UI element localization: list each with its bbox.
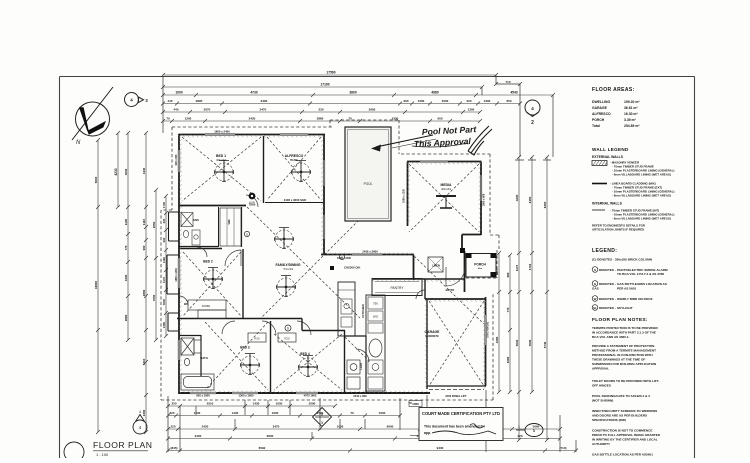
dim col left 4 <box>142 131 148 434</box>
svg-text:17190: 17190 <box>320 83 329 87</box>
svg-text:36.61 m²: 36.61 m² <box>624 106 638 110</box>
wall bed3-bed4 divider <box>270 321 272 393</box>
svg-text:PORCH: PORCH <box>474 263 486 267</box>
svg-text:3.6 x 3.4: 3.6 x 3.4 <box>441 188 451 191</box>
svg-text:1000 x 2400: 1000 x 2400 <box>337 257 352 260</box>
svg-text:(NOT SHOWN): (NOT SHOWN) <box>592 399 613 403</box>
svg-text:254.89 m²: 254.89 m² <box>624 124 640 128</box>
svg-text:6000: 6000 <box>387 425 394 429</box>
svg-text:6490: 6490 <box>261 99 268 103</box>
svg-text:4130: 4130 <box>142 167 146 174</box>
wall garage south <box>427 385 486 387</box>
svg-text:FLOOR PLAN: FLOOR PLAN <box>93 440 152 450</box>
svg-text:2510: 2510 <box>207 402 214 406</box>
wall bed2 north <box>179 248 222 250</box>
svg-text:1000: 1000 <box>175 91 183 95</box>
handwritten note pool not part this approval <box>412 124 478 149</box>
legend section <box>592 248 668 310</box>
dim col right 3 <box>515 155 521 442</box>
bottom dim extension lines <box>168 390 576 452</box>
linen closet <box>428 257 443 272</box>
svg-text:BED 3: BED 3 <box>240 346 250 350</box>
svg-text:300: 300 <box>403 99 408 103</box>
door arc laundry <box>356 349 369 362</box>
border frame <box>60 77 695 459</box>
balloon marker 4-2 <box>525 100 540 126</box>
roof hips garage <box>429 301 484 386</box>
dim col left 1 (16600) <box>94 138 100 434</box>
ceiling fan bed2 <box>204 268 223 289</box>
svg-text:S: S <box>287 327 289 331</box>
svg-text:6150: 6150 <box>528 196 532 203</box>
wall wir east <box>241 207 243 247</box>
wall ens-wir divider <box>218 207 220 247</box>
svg-text:AUTHORITY: AUTHORITY <box>592 442 611 446</box>
garage door line <box>429 389 484 391</box>
svg-text:FAMILY/DINING: FAMILY/DINING <box>276 263 301 267</box>
smoke alarm family <box>339 254 344 259</box>
dim col left 2 (4230) <box>114 131 120 209</box>
wall left wing top <box>179 134 326 136</box>
small label box above stamp <box>409 401 422 407</box>
roof hips bed4 <box>274 334 342 390</box>
svg-text:GAS BOTTLE LOCATION AS PER AS5: GAS BOTTLE LOCATION AS PER AS5601 <box>592 453 653 457</box>
svg-text:PORCH: PORCH <box>592 118 605 122</box>
svg-text:900 x 600: 900 x 600 <box>175 154 178 165</box>
svg-text:R20: R20 <box>284 337 290 341</box>
certification stamp <box>410 408 503 441</box>
bay ens window <box>169 212 180 241</box>
dim col right 2 <box>506 253 512 394</box>
svg-text:1380: 1380 <box>142 409 146 416</box>
svg-text:1430: 1430 <box>232 411 239 415</box>
svg-text:LDRY: LDRY <box>359 362 363 369</box>
svg-text:650: 650 <box>506 99 511 103</box>
wall porch-entry <box>464 251 466 292</box>
svg-text:70: 70 <box>408 401 412 405</box>
wall garage north <box>425 298 486 300</box>
dim extension line mid <box>482 75 553 157</box>
door arc hall top <box>246 195 258 207</box>
svg-text:ENTRY: ENTRY <box>446 288 455 292</box>
bay bath window <box>167 255 179 294</box>
svg-text:TO BCA VOL 2 P2.7.2 & AS 3786: TO BCA VOL 2 P2.7.2 & AS 3786 <box>617 272 664 276</box>
svg-text:BED 2: BED 2 <box>203 260 213 264</box>
svg-text:1110: 1110 <box>142 219 146 226</box>
door arc bath hall <box>222 321 235 334</box>
wall bed1-alfresco divider <box>263 136 265 203</box>
dimension row bottom 2 <box>166 411 402 417</box>
dim extension line left <box>162 76 164 133</box>
svg-text:7.1 x 4.4: 7.1 x 4.4 <box>283 268 293 271</box>
svg-text:1200: 1200 <box>418 99 425 103</box>
svg-text:4000: 4000 <box>442 99 449 103</box>
svg-text:IN ACCORDANCE WITH PART 3.1.3: IN ACCORDANCE WITH PART 3.1.3 OF THE <box>592 331 656 335</box>
svg-text:PROFESSIONAL IN CONJUNCTION WI: PROFESSIONAL IN CONJUNCTION WITH <box>592 353 653 357</box>
svg-text:CHS300 O/H: CHS300 O/H <box>344 266 360 270</box>
svg-text:ALFRESCO: ALFRESCO <box>285 154 304 158</box>
svg-text:445: 445 <box>167 99 172 103</box>
wall bath block <box>179 335 201 376</box>
column marker kob <box>249 193 256 205</box>
ceiling fan bed1 <box>215 161 234 182</box>
svg-text:600: 600 <box>437 117 442 121</box>
svg-text:PROVIDE A STATEMENT OF PROTECT: PROVIDE A STATEMENT OF PROTECTION <box>592 344 655 348</box>
wall house south <box>179 392 430 394</box>
svg-text:220: 220 <box>169 411 174 415</box>
svg-text:DENOTES -: DENOTES - <box>599 282 616 286</box>
svg-text:3300: 3300 <box>124 274 128 281</box>
svg-text:POOL: POOL <box>364 182 373 186</box>
dimension row top D <box>161 99 522 105</box>
wall media west <box>407 162 409 226</box>
svg-text:1430: 1430 <box>253 402 260 406</box>
svg-text:DENOTES -: DENOTES - <box>599 297 616 301</box>
svg-text:AND DOORS ARE AS PER BUILDERS: AND DOORS ARE AS PER BUILDERS <box>592 414 647 418</box>
door arc bed2 <box>225 250 241 266</box>
floor areas table <box>592 87 640 128</box>
svg-text:Total: Total <box>592 124 600 128</box>
svg-text:8450: 8450 <box>543 201 547 208</box>
kitchen wall bench and appliances <box>366 295 385 391</box>
svg-text:17560: 17560 <box>326 71 335 75</box>
svg-text:70: 70 <box>350 411 354 415</box>
dimension row top F <box>161 117 482 123</box>
roof hips family <box>247 204 375 318</box>
svg-text:2860: 2860 <box>142 289 146 296</box>
door arc wc <box>179 296 188 305</box>
wall legend <box>592 147 675 232</box>
svg-text:4030: 4030 <box>124 168 128 175</box>
roof hips bed2 <box>183 252 241 316</box>
wall garage east <box>485 297 487 386</box>
svg-text:EXTERNAL WALLS: EXTERNAL WALLS <box>592 155 624 159</box>
svg-text:CONSTRUCTION IS NOT TO COMMENC: CONSTRUCTION IS NOT TO COMMENCE <box>592 429 652 433</box>
svg-text:199.20 m²: 199.20 m² <box>624 100 640 104</box>
svg-text:4730: 4730 <box>250 91 258 95</box>
svg-text:SPECIFICATIONS (IND): SPECIFICATIONS (IND) <box>592 418 626 422</box>
svg-text:1380: 1380 <box>162 321 166 328</box>
svg-text:2420: 2420 <box>249 117 256 121</box>
dim col left 5 (7050) <box>152 188 158 342</box>
door arc entry <box>446 267 465 286</box>
svg-text:1173: 1173 <box>515 264 519 271</box>
svg-text:BED 1: BED 1 <box>216 154 226 158</box>
wall bed4 north <box>302 319 345 331</box>
svg-text:1190: 1190 <box>162 257 166 264</box>
wall entry west <box>424 279 426 299</box>
dim col left 6 <box>162 194 168 338</box>
svg-text:5310: 5310 <box>142 358 146 365</box>
svg-text:2380: 2380 <box>495 336 499 343</box>
svg-text:2420: 2420 <box>202 425 209 429</box>
svg-text:220: 220 <box>170 425 175 429</box>
svg-text:713: 713 <box>505 80 510 84</box>
svg-text:1 : 100: 1 : 100 <box>96 452 109 457</box>
svg-text:FLOOR PLAN NOTES:: FLOOR PLAN NOTES: <box>592 317 648 323</box>
dimension row top B (17190) <box>161 83 484 89</box>
dim ext tick 713 <box>494 82 522 86</box>
svg-text:2050: 2050 <box>152 221 156 228</box>
balloon marker diamond <box>313 408 332 427</box>
balloon marker bottom 4 <box>133 410 147 434</box>
svg-text:GAS BOTTLE/HWS LOCATION AS: GAS BOTTLE/HWS LOCATION AS <box>617 282 667 286</box>
svg-text:1230: 1230 <box>194 411 201 415</box>
door arc ens <box>197 247 207 257</box>
checkmark scribble <box>468 126 492 155</box>
svg-text:990: 990 <box>162 237 166 242</box>
svg-text:3800: 3800 <box>349 91 357 95</box>
pool <box>345 127 391 221</box>
svg-text:880: 880 <box>506 272 510 277</box>
svg-text:1000: 1000 <box>276 402 283 406</box>
wall media east <box>480 162 482 235</box>
svg-text:4980: 4980 <box>431 91 439 95</box>
ceiling fan bed4 <box>299 356 318 377</box>
svg-text:770: 770 <box>506 307 510 312</box>
svg-text:LEGEND:: LEGEND: <box>592 248 617 254</box>
ceiling fan alfresco <box>292 161 311 182</box>
svg-text:- 6mm VILLABOARD LINING (WET A: - 6mm VILLABOARD LINING (WET AREAS) <box>612 217 671 221</box>
balloon marker bottom right <box>516 424 543 437</box>
svg-text:BCA VOL AND AS 3660.1.: BCA VOL AND AS 3660.1. <box>592 335 630 339</box>
svg-text:INTERNAL WALLS: INTERNAL WALLS <box>592 202 623 206</box>
wall left exterior <box>178 134 180 394</box>
robe shelving bed2 <box>188 300 226 319</box>
svg-text:THESE DRAWINGS AT THE TIME OF: THESE DRAWINGS AT THE TIME OF <box>592 358 645 362</box>
svg-text:GARAGE: GARAGE <box>592 106 608 110</box>
svg-text:DENOTES -: DENOTES - <box>599 306 616 310</box>
wall media top <box>407 161 482 163</box>
wall hall <box>177 318 302 320</box>
svg-text:2400 PANEL LIFT: 2400 PANEL LIFT <box>445 394 467 398</box>
porch dashed edge <box>466 250 497 278</box>
svg-text:4543: 4543 <box>510 91 518 95</box>
svg-text:STAC-800 (A): STAC-800 (A) <box>487 322 490 338</box>
svg-text:4230: 4230 <box>114 168 118 175</box>
title floor plan <box>64 440 152 462</box>
svg-text:FLOOR AREAS:: FLOOR AREAS: <box>592 87 635 93</box>
dim col right 1 <box>495 251 501 394</box>
svg-text:ALFRESCO: ALFRESCO <box>592 112 611 116</box>
media room table symbol <box>436 196 456 208</box>
svg-text:1060: 1060 <box>412 402 419 406</box>
wall ens south <box>179 246 218 248</box>
svg-text:ENS: ENS <box>193 218 199 222</box>
svg-text:230: 230 <box>318 108 323 112</box>
ceiling fan bed3 <box>241 354 260 375</box>
svg-text:app.: app. <box>424 431 431 435</box>
svg-text:tiles: tiles <box>478 267 483 270</box>
svg-text:2860: 2860 <box>124 314 128 321</box>
svg-text:720ch: 720ch <box>249 204 256 207</box>
floor plan notes <box>592 317 661 457</box>
smoke alarm hall <box>244 231 249 236</box>
svg-text:2900: 2900 <box>369 108 376 112</box>
svg-text:1300: 1300 <box>468 108 475 112</box>
svg-text:5030: 5030 <box>515 339 519 346</box>
svg-text:5740: 5740 <box>543 341 547 348</box>
svg-text:750: 750 <box>373 302 378 306</box>
wall alfresco east <box>323 134 325 255</box>
svg-text:BED 4: BED 4 <box>300 352 310 356</box>
svg-text:3470: 3470 <box>273 425 280 429</box>
dimension row top A (17560) <box>161 71 498 77</box>
wall kitchen-laundry <box>345 336 366 393</box>
svg-text:220: 220 <box>466 99 471 103</box>
svg-text:(710): (710) <box>559 446 566 450</box>
ensuite fixtures <box>181 213 200 246</box>
door arc bed4 <box>297 321 311 335</box>
svg-text:KITCHEN: KITCHEN <box>361 304 365 317</box>
svg-text:TERMITE PROTECTION IS TO BE PR: TERMITE PROTECTION IS TO BE PROVIDED <box>592 326 659 330</box>
svg-text:5470: 5470 <box>260 108 267 112</box>
laundry fixtures <box>347 360 360 389</box>
wall courtyard south <box>321 254 414 256</box>
svg-text:N: N <box>76 140 81 146</box>
kitchen island bench <box>338 282 355 336</box>
svg-text:1700: 1700 <box>162 201 166 208</box>
dimension row bottom 1 <box>166 402 337 408</box>
roof hips bed1 <box>182 137 261 201</box>
wall media south step <box>462 235 481 252</box>
svg-text:METHOD FROM A TERMITE MANAGEME: METHOD FROM A TERMITE MANAGEMENT <box>592 349 656 353</box>
dim col left 3 <box>124 131 130 342</box>
svg-text:16.30 m²: 16.30 m² <box>624 112 638 116</box>
svg-text:WIR: WIR <box>227 219 231 224</box>
svg-text:LINEN: LINEN <box>432 264 440 268</box>
dimension row bottom 4 <box>166 434 562 440</box>
svg-text:SUBMISSION FOR BUILDING APPLIC: SUBMISSION FOR BUILDING APPLICATION <box>592 362 657 366</box>
svg-text:2: 2 <box>531 120 534 126</box>
pantry room <box>372 279 422 296</box>
svg-text:2340 x 820: 2340 x 820 <box>353 394 367 398</box>
chs column <box>330 266 334 270</box>
svg-text:TOILET DOORS TO BE PROVIDED WI: TOILET DOORS TO BE PROVIDED WITH LIFT- <box>592 379 659 383</box>
dim col right 4 <box>528 155 534 394</box>
svg-text:MEDIA: MEDIA <box>441 183 452 187</box>
svg-text:6592: 6592 <box>259 446 266 450</box>
door arc bed3 <box>262 321 276 335</box>
svg-text:1300: 1300 <box>484 99 491 103</box>
svg-text:W: W <box>594 297 597 301</box>
svg-text:2590: 2590 <box>309 402 316 406</box>
svg-text:S: S <box>594 268 596 272</box>
svg-text:1000: 1000 <box>379 411 386 415</box>
svg-text:OFF HINGES: OFF HINGES <box>592 384 611 388</box>
wall family east <box>413 255 415 280</box>
svg-text:ARTICULATION JOINTS IF REQUIRE: ARTICULATION JOINTS IF REQUIRED <box>592 228 644 232</box>
svg-text:1000: 1000 <box>272 411 279 415</box>
roof valley entry <box>414 256 484 324</box>
svg-text:5280: 5280 <box>506 356 510 363</box>
wall left wing bottom bed1 <box>179 205 246 207</box>
svg-text:445: 445 <box>173 108 178 112</box>
svg-text:1800 x 1330: 1800 x 1330 <box>403 188 406 203</box>
svg-text:GAS: GAS <box>592 287 599 291</box>
svg-text:WHIRLY BIRD ON ROOF: WHIRLY BIRD ON ROOF <box>617 297 653 301</box>
walk-in robe <box>220 208 241 246</box>
bathroom fixtures <box>181 338 214 390</box>
svg-text:TILING: TILING <box>290 159 298 162</box>
svg-text:2420: 2420 <box>195 434 202 438</box>
svg-text:INSECT/SECURITY SCREENS TO WIN: INSECT/SECURITY SCREENS TO WINDOWS <box>592 409 657 413</box>
svg-text:3.6 x 3.2: 3.6 x 3.2 <box>216 159 226 162</box>
svg-text:DWELLING: DWELLING <box>592 100 610 104</box>
dashed eave left wing and body <box>161 127 493 400</box>
svg-text:1200: 1200 <box>185 117 192 121</box>
svg-text:70: 70 <box>166 117 170 121</box>
svg-text:16600: 16600 <box>94 281 98 289</box>
window gaps <box>178 133 487 394</box>
svg-text:WO: WO <box>373 315 379 319</box>
svg-text:SL: SL <box>593 306 597 310</box>
svg-text:APPROVAL: APPROVAL <box>592 367 609 371</box>
svg-text:2070: 2070 <box>204 108 211 112</box>
dim col right 5 <box>543 155 549 442</box>
porch structure <box>460 248 497 277</box>
door arc garage internal <box>416 290 425 299</box>
wall pantry-entry north <box>372 278 465 280</box>
svg-text:1800 x 600: 1800 x 600 <box>483 193 486 206</box>
svg-text:1170: 1170 <box>162 277 166 284</box>
svg-text:PRIOR TO FULL APPROVAL BEING G: PRIOR TO FULL APPROVAL BEING GRANTED <box>592 433 661 437</box>
svg-text:(845): (845) <box>170 446 177 450</box>
svg-text:SKYLIGHT: SKYLIGHT <box>617 306 633 310</box>
wall bed2 east <box>242 249 244 318</box>
dimension row top E <box>161 108 482 114</box>
svg-text:1800 x 1330: 1800 x 1330 <box>175 268 178 282</box>
svg-text:COURT MADE CERTIFICATION PTY L: COURT MADE CERTIFICATION PTY LTD <box>422 411 500 416</box>
svg-text:1716: 1716 <box>528 263 532 270</box>
ceiling fan family north <box>275 228 294 249</box>
roof hips bed3 <box>205 322 268 390</box>
roof hips alfresco <box>267 137 321 200</box>
svg-text:GARAGE: GARAGE <box>425 330 441 334</box>
svg-text:3500: 3500 <box>528 339 532 346</box>
svg-text:WALL LEGEND: WALL LEGEND <box>592 147 629 152</box>
alfresco sgd line <box>265 202 324 204</box>
svg-text:1800 x 2400: 1800 x 2400 <box>214 130 230 134</box>
svg-text:9430: 9430 <box>437 446 444 450</box>
svg-text:S: S <box>246 232 248 236</box>
svg-text:R20: R20 <box>254 337 260 341</box>
north arrow compass <box>72 87 113 146</box>
svg-text:990: 990 <box>142 245 146 250</box>
bay wc window <box>168 313 179 331</box>
svg-text:- 6mm VILLABOARD LINING (WET A: - 6mm VILLABOARD LINING (WET AREAS) <box>612 173 671 177</box>
svg-text:IN WRITING BY THE CERTIFIER AN: IN WRITING BY THE CERTIFIER AND LOCAL <box>592 438 658 442</box>
note leader arrow to pool <box>371 135 436 152</box>
svg-text:1100: 1100 <box>124 218 128 225</box>
roof valley kitchen <box>345 337 366 358</box>
svg-text:DENOTES -: DENOTES - <box>599 268 616 272</box>
svg-text:(C) DENOTES - 350x350 BRICK CO: (C) DENOTES - 350x350 BRICK COLUMN <box>592 258 653 262</box>
dashed eave media wing <box>401 154 499 250</box>
wall bed4 east <box>344 330 346 393</box>
svg-text:3.39 m²: 3.39 m² <box>624 118 637 122</box>
svg-text:3000: 3000 <box>162 298 166 305</box>
dimension row bottom 5 <box>166 446 578 452</box>
wall hatch marks <box>178 135 486 394</box>
svg-text:325: 325 <box>162 218 166 223</box>
dimension row bottom 3 <box>166 425 562 431</box>
svg-text:4200: 4200 <box>515 194 519 201</box>
roof hips media <box>409 164 479 232</box>
svg-text:WC: WC <box>184 303 188 306</box>
svg-text:POOL FENCING/GATE TO AS1926.1: POOL FENCING/GATE TO AS1926.1 & 2 <box>592 394 650 398</box>
balloon marker 4-3 <box>125 93 149 107</box>
